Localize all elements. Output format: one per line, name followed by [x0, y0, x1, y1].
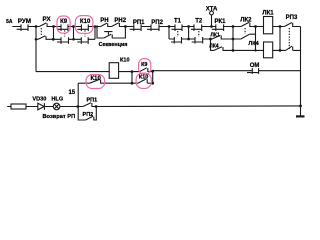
svg-text:К10: К10: [80, 19, 91, 25]
svg-text:РК1: РК1: [214, 19, 226, 25]
svg-text:Секвенция: Секвенция: [99, 42, 128, 48]
svg-text:РП3: РП3: [286, 15, 298, 21]
svg-text:Т1: Т1: [174, 18, 182, 24]
svg-text:РП1: РП1: [86, 98, 97, 104]
svg-text:РУМ: РУМ: [18, 18, 31, 25]
svg-text:РП1: РП1: [133, 20, 145, 26]
svg-text:HLG: HLG: [51, 96, 63, 102]
svg-text:РН2: РН2: [114, 18, 126, 24]
svg-text:К9: К9: [141, 62, 147, 68]
svg-text:К10: К10: [120, 57, 129, 63]
svg-text:Т2: Т2: [195, 19, 203, 25]
svg-text:К9: К9: [60, 19, 68, 25]
svg-text:ЛК1: ЛК1: [262, 11, 274, 17]
svg-text:К10: К10: [139, 75, 148, 81]
svg-text:15: 15: [68, 90, 75, 96]
svg-text:ЛК2: ЛК2: [240, 17, 252, 23]
svg-text:ЛК4: ЛК4: [248, 41, 259, 47]
svg-text:VD30: VD30: [32, 96, 46, 102]
svg-text:ОМ: ОМ: [250, 63, 260, 69]
svg-text:5А: 5А: [6, 19, 13, 25]
svg-text:ЛК1: ЛК1: [210, 33, 220, 39]
svg-text:РП2: РП2: [151, 20, 163, 26]
svg-text:РП2: РП2: [83, 112, 94, 118]
svg-text:К10: К10: [91, 76, 102, 82]
svg-text:ХТА: ХТА: [206, 6, 218, 12]
svg-text:Возврат РП: Возврат РП: [42, 114, 75, 120]
svg-text:ЛК4: ЛК4: [209, 44, 219, 50]
svg-text:РХ: РХ: [43, 16, 52, 23]
svg-text:РН: РН: [100, 18, 108, 24]
